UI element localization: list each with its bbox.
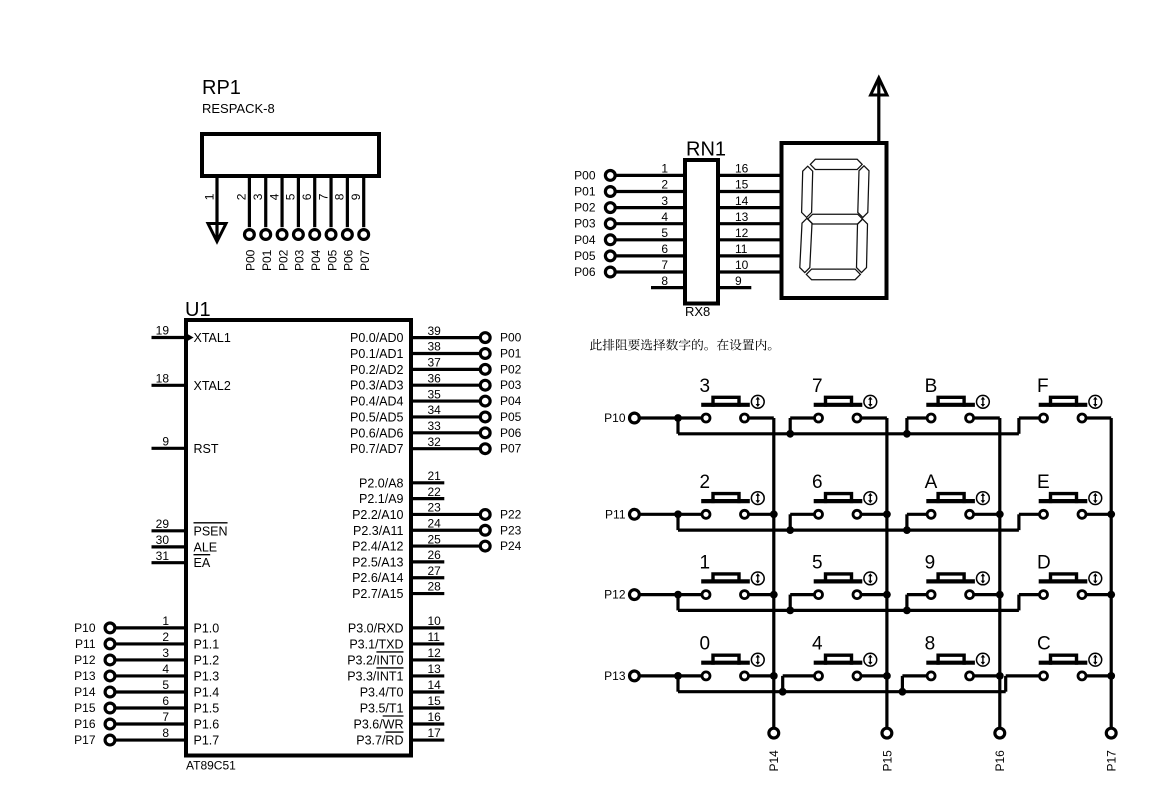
svg-text:2: 2 (235, 193, 249, 200)
button P11-P14 actuator bar (key 2) (701, 499, 750, 503)
7-segment display segment e (800, 218, 812, 272)
U1 pin 23 wire (P2.2/A10) (411, 513, 480, 516)
terminal P00 (480, 333, 490, 343)
button P11-P16 right contact (key A) (966, 510, 974, 518)
junction on P12 row (674, 591, 682, 599)
junction on P11 row (674, 510, 682, 518)
ground symbol at RP1 pin 1 (208, 224, 226, 242)
svg-text:23: 23 (428, 501, 442, 515)
button P12-P14 actuate icon (key 1) (751, 572, 764, 585)
svg-text:P06: P06 (500, 426, 522, 440)
svg-text:P2.7/A15: P2.7/A15 (352, 587, 403, 601)
svg-text:5: 5 (812, 552, 823, 573)
button P13-P16 left contact (key 8) (927, 672, 935, 680)
svg-text:13: 13 (735, 210, 749, 224)
U1 pin 3 wire (P1.2) (115, 658, 186, 661)
wire row bus under-run (678, 528, 1019, 531)
svg-text:3: 3 (162, 646, 169, 660)
svg-text:P01: P01 (574, 185, 596, 199)
svg-text:9: 9 (349, 193, 363, 200)
junction on P10 row (674, 414, 682, 422)
svg-text:2: 2 (162, 630, 169, 644)
button P13-P16 right contact (key 8) (966, 672, 974, 680)
svg-text:P0.6/AD6: P0.6/AD6 (350, 426, 404, 440)
svg-text:34: 34 (428, 403, 442, 417)
svg-text:RST: RST (194, 442, 219, 456)
wire key 0 to column P14 (749, 674, 774, 677)
svg-text:P01: P01 (500, 346, 522, 360)
terminal P24 (480, 541, 490, 551)
svg-text:P1.1: P1.1 (194, 637, 220, 651)
svg-text:21: 21 (428, 469, 442, 483)
button P11-P17 plunger (key E) (1051, 494, 1077, 504)
svg-text:16: 16 (735, 162, 749, 176)
svg-text:1: 1 (661, 162, 668, 176)
wire riser to key E (1019, 513, 1040, 516)
wire RN1 pin 11 to display (718, 254, 782, 257)
svg-text:26: 26 (428, 548, 442, 562)
wire riser to key B (907, 416, 927, 419)
U1 pin 22 wire (P2.1/A9) (411, 497, 444, 500)
svg-text:5: 5 (284, 193, 298, 200)
svg-text:5: 5 (661, 226, 668, 240)
wire column bus P17 (1110, 418, 1113, 728)
button P11-P16 plunger (key A) (938, 494, 964, 504)
wire riser to key 4 (783, 674, 815, 677)
svg-text:B: B (925, 376, 938, 397)
button P13-P16 actuate icon (key 8) (977, 653, 990, 666)
button P10-P14 plunger (key 3) (713, 397, 739, 407)
button P13-P15 actuate icon (key 4) (864, 653, 877, 666)
U1 pin 29 wire (PSEN) (152, 529, 187, 532)
U1 pin 15 wire (P3.5/T1) (411, 706, 444, 709)
U1 pin 16 wire (P3.6/WR) (411, 722, 444, 725)
svg-text:XTAL2: XTAL2 (194, 379, 231, 393)
svg-text:33: 33 (428, 419, 442, 433)
svg-text:7: 7 (162, 710, 169, 724)
U1 pin 30 wire (ALE) (152, 545, 187, 548)
button P13-P17 actuator bar (key C) (1039, 661, 1088, 665)
button P13-P17 right contact (key C) (1078, 672, 1086, 680)
wire RN1 pin 10 to display (718, 270, 782, 273)
svg-text:P06: P06 (342, 249, 356, 271)
button P12-P15 left contact (key 5) (815, 591, 823, 599)
svg-text:P11: P11 (605, 507, 626, 521)
U1 pin 10 wire (P3.0/RXD) (411, 626, 444, 629)
svg-text:P05: P05 (500, 410, 522, 424)
wire riser to key 6 (790, 513, 814, 516)
svg-text:P0.7/AD7: P0.7/AD7 (350, 442, 404, 456)
wire key 4 to column P15 (861, 674, 887, 677)
terminal P17 (1106, 728, 1116, 738)
svg-text:9: 9 (162, 435, 169, 449)
wire key E to column P17 (1086, 513, 1111, 516)
wire key D to column P17 (1086, 593, 1111, 596)
button P10-P16 right contact (key B) (966, 414, 974, 422)
terminal P01 at RN1 (605, 187, 615, 197)
svg-text:13: 13 (428, 662, 442, 676)
wire riser to key D (1019, 593, 1040, 596)
svg-text:16: 16 (428, 710, 442, 724)
button P12-P15 plunger (key 5) (826, 574, 852, 584)
U1 pin 35 wire (P0.4/AD4) (411, 399, 480, 402)
wire key 3 to column P14 (749, 416, 774, 419)
svg-text:39: 39 (428, 324, 442, 338)
svg-text:P17: P17 (1105, 750, 1119, 772)
RN1 pin 9 stub wire (718, 286, 751, 289)
overline on RD (385, 731, 403, 733)
svg-text:P1.4: P1.4 (194, 685, 220, 699)
svg-text:P14: P14 (74, 685, 96, 699)
wire row bus under-run (678, 432, 1019, 435)
svg-text:P05: P05 (325, 249, 339, 271)
svg-text:18: 18 (156, 372, 170, 386)
U1 pin 32 wire (P0.7/AD7) (411, 447, 480, 450)
svg-text:14: 14 (735, 194, 749, 208)
svg-text:P3.1/TXD: P3.1/TXD (349, 637, 403, 651)
button P12-P17 right contact (key D) (1078, 591, 1086, 599)
7-segment display segment d (806, 269, 860, 280)
svg-text:1: 1 (700, 552, 711, 573)
power arrow symbol (871, 78, 887, 95)
U1 pin 34 wire (P0.5/AD5) (411, 415, 480, 418)
terminal P11 (630, 509, 640, 519)
button P12-P16 actuate icon (key 9) (977, 572, 990, 585)
U1 pin 19 wire (XTAL1) (152, 336, 187, 339)
RP1 pin 2 wire (248, 176, 251, 227)
svg-text:P3.0/RXD: P3.0/RXD (348, 621, 404, 635)
button P11-P17 actuator bar (key E) (1039, 499, 1088, 503)
U1 pin 11 wire (P3.1/TXD) (411, 642, 444, 645)
svg-text:E: E (1037, 472, 1050, 493)
svg-text:P3.5/T1: P3.5/T1 (360, 702, 404, 716)
svg-text:XTAL1: XTAL1 (194, 331, 231, 345)
overline on INT1 (376, 667, 403, 669)
svg-text:P02: P02 (276, 249, 290, 271)
wire row bus under-run (678, 690, 1006, 693)
svg-text:15: 15 (428, 694, 442, 708)
terminal P10 (105, 623, 115, 633)
svg-text:P15: P15 (74, 701, 96, 715)
svg-text:P2.4/A12: P2.4/A12 (352, 540, 403, 554)
button P10-P15 actuate icon (key 7) (864, 395, 877, 408)
U1 pin 2 wire (P1.1) (115, 642, 186, 645)
svg-text:AT89C51: AT89C51 (186, 759, 236, 773)
svg-text:36: 36 (428, 371, 442, 385)
U1 pin 25 wire (P2.4/A12) (411, 544, 480, 547)
button P10-P15 plunger (key 7) (826, 397, 852, 407)
terminal P06 at RN1 (605, 267, 615, 277)
button P11-P15 left contact (key 6) (815, 510, 823, 518)
svg-text:11: 11 (735, 242, 748, 256)
svg-text:11: 11 (428, 630, 441, 644)
annotation text (Chinese) (590, 339, 771, 351)
wire riser to key 7 (790, 416, 814, 419)
RP1 pin 6 wire (313, 176, 316, 227)
button P11-P15 plunger (key 6) (826, 494, 852, 504)
terminal P13 (630, 671, 640, 681)
U1 pin 7 wire (P1.6) (115, 722, 186, 725)
button P11-P16 actuator bar (key A) (926, 499, 975, 503)
svg-text:2: 2 (661, 178, 668, 192)
svg-text:35: 35 (428, 387, 442, 401)
wire key 7 to column P15 (861, 416, 887, 419)
svg-text:8: 8 (162, 726, 169, 740)
wire row bus drop (676, 595, 679, 611)
terminal P16 (105, 719, 115, 729)
svg-text:P11: P11 (75, 637, 96, 651)
svg-text:5: 5 (162, 678, 169, 692)
terminal P00 on RP1 pin 2 (245, 230, 255, 240)
button P12-P15 actuator bar (key 5) (814, 579, 863, 583)
button P12-P16 right contact (key 9) (966, 591, 974, 599)
RP1 pin 3 wire (264, 176, 267, 227)
button P10-P14 right contact (key 3) (741, 414, 749, 422)
svg-text:P1.2: P1.2 (194, 653, 220, 667)
button P12-P16 actuator bar (key 9) (926, 579, 975, 583)
U1 pin 28 wire (P2.7/A15) (411, 592, 444, 595)
svg-text:P13: P13 (74, 669, 96, 683)
svg-text:P2.3/A11: P2.3/A11 (353, 524, 404, 538)
terminal P02 (480, 364, 490, 374)
button P10-P15 actuator bar (key 7) (814, 403, 863, 407)
svg-text:P3.7/RD: P3.7/RD (356, 734, 403, 748)
overline on PSEN (194, 522, 228, 524)
terminal P13 (105, 671, 115, 681)
button P10-P14 actuator bar (key 3) (701, 403, 750, 407)
button P12-P14 plunger (key 1) (713, 574, 739, 584)
XTAL1 clock input marker (188, 334, 194, 341)
svg-text:P00: P00 (244, 249, 258, 271)
U1 pin 6 wire (P1.5) (115, 706, 186, 709)
svg-text:P15: P15 (880, 750, 894, 772)
overline on EA (194, 554, 211, 556)
svg-text:P3.3/INT1: P3.3/INT1 (347, 669, 403, 683)
svg-text:F: F (1037, 376, 1049, 397)
svg-text:P2.5/A13: P2.5/A13 (352, 555, 403, 569)
svg-text:P1.6: P1.6 (194, 718, 220, 732)
button P13-P17 left contact (key C) (1040, 672, 1048, 680)
junction column P17 row P13 (1107, 672, 1115, 680)
svg-text:7: 7 (661, 258, 668, 272)
svg-text:P03: P03 (500, 378, 522, 392)
wire row bus riser (1017, 418, 1020, 434)
wire row bus riser (1017, 595, 1020, 611)
button P12-P17 actuator bar (key D) (1039, 579, 1088, 583)
svg-text:PSEN: PSEN (194, 524, 228, 538)
U1 pin 12 wire (P3.2/INT0) (411, 658, 444, 661)
7-segment display segment a (810, 159, 862, 169)
button P10-P17 actuate icon (key F) (1089, 395, 1102, 408)
svg-text:P04: P04 (574, 233, 596, 247)
wire key A to column P16 (974, 513, 1000, 516)
wire RN1 pin 16 to display (718, 174, 782, 177)
button P12-P15 actuate icon (key 5) (864, 572, 877, 585)
terminal P01 on RP1 pin 3 (261, 230, 271, 240)
U1 pin 37 wire (P0.2/AD2) (411, 368, 480, 371)
svg-text:1: 1 (202, 193, 216, 200)
svg-text:0: 0 (700, 634, 711, 655)
terminal P04 (480, 396, 490, 406)
button P13-P15 actuator bar (key 4) (814, 661, 863, 665)
wire RN1 pin 13 to display (718, 222, 782, 225)
button P11-P17 right contact (key E) (1078, 510, 1086, 518)
button P11-P14 right contact (key 2) (741, 510, 749, 518)
button P12-P14 left contact (key 1) (702, 591, 710, 599)
terminal P14 (105, 687, 115, 697)
U1 pin 26 wire (P2.5/A13) (411, 560, 444, 563)
svg-text:6: 6 (661, 242, 668, 256)
junction row bus riser (903, 607, 911, 615)
RP1 pin 8 wire (346, 176, 349, 227)
wire P02 to RN1 pin 3 (615, 206, 685, 209)
wire row bus riser (1017, 514, 1020, 530)
wire P00 to RN1 pin 1 (615, 174, 685, 177)
terminal P22 (480, 510, 490, 520)
wire row bus riser (905, 595, 908, 611)
wire RN1 pin 15 to display (718, 190, 782, 193)
svg-text:31: 31 (156, 549, 170, 563)
svg-text:P17: P17 (74, 733, 96, 747)
button P13-P14 actuate icon (key 0) (751, 653, 764, 666)
svg-text:2: 2 (700, 472, 711, 493)
button P10-P17 left contact (key F) (1040, 414, 1048, 422)
U1 pin 1 wire (P1.0) (115, 626, 186, 629)
terminal P04 at RN1 (605, 235, 615, 245)
button P12-P14 right contact (key 1) (741, 591, 749, 599)
svg-text:P0.3/AD3: P0.3/AD3 (350, 379, 404, 393)
terminal P03 (480, 380, 490, 390)
terminal P05 at RN1 (605, 251, 615, 261)
terminal P03 on RP1 pin 5 (293, 230, 303, 240)
svg-text:P06: P06 (574, 265, 596, 279)
button P10-P16 actuator bar (key B) (926, 403, 975, 407)
button P12-P15 right contact (key 5) (853, 591, 861, 599)
button P10-P14 actuate icon (key 3) (751, 395, 764, 408)
junction column P15 row P12 (883, 591, 891, 599)
svg-text:P0.0/AD0: P0.0/AD0 (350, 331, 404, 345)
svg-text:12: 12 (428, 646, 442, 660)
svg-text:6: 6 (300, 193, 314, 200)
svg-text:RP1: RP1 (202, 77, 241, 99)
wire row bus riser (901, 676, 904, 692)
svg-text:P02: P02 (500, 362, 522, 376)
button P10-P16 plunger (key B) (938, 397, 964, 407)
button P11-P17 actuate icon (key E) (1089, 492, 1102, 505)
wire P06 to RN1 pin 7 (615, 270, 685, 273)
wire riser to key 5 (790, 593, 814, 596)
svg-text:29: 29 (156, 517, 170, 531)
svg-text:10: 10 (428, 614, 442, 628)
svg-text:10: 10 (735, 258, 749, 272)
resistor pack RP1 body (202, 134, 379, 176)
wire row bus riser (1004, 676, 1007, 692)
button P13-P14 plunger (key 0) (713, 655, 739, 665)
svg-text:9: 9 (735, 274, 742, 288)
button P11-P16 left contact (key A) (927, 510, 935, 518)
svg-text:P10: P10 (74, 621, 96, 635)
svg-text:8: 8 (333, 193, 347, 200)
U1 pin 33 wire (P0.6/AD6) (411, 431, 480, 434)
junction row bus riser (786, 430, 794, 438)
wire RN1 pin 14 to display (718, 206, 782, 209)
wire column bus P14 (772, 418, 775, 728)
svg-text:P3.6/WR: P3.6/WR (353, 718, 403, 732)
terminal P02 on RP1 pin 4 (277, 230, 287, 240)
U1 pin 8 wire (P1.7) (115, 738, 186, 741)
svg-text:4: 4 (812, 634, 823, 655)
U1 pin 38 wire (P0.1/AD1) (411, 352, 480, 355)
terminal P15 (882, 728, 892, 738)
svg-text:30: 30 (156, 533, 170, 547)
button P11-P14 left contact (key 2) (702, 510, 710, 518)
svg-text:P22: P22 (500, 507, 522, 521)
wire P01 to RN1 pin 2 (615, 190, 685, 193)
button P13-P16 actuator bar (key 8) (926, 661, 975, 665)
svg-text:P01: P01 (260, 249, 274, 271)
svg-text:37: 37 (428, 356, 442, 370)
U1 pin 18 wire (XTAL2) (152, 384, 187, 387)
svg-text:24: 24 (428, 516, 442, 530)
resistor network RN1 body (685, 160, 718, 304)
wire key 6 to column P15 (861, 513, 887, 516)
svg-text:P0.5/AD5: P0.5/AD5 (350, 410, 404, 424)
junction column P16 row P11 (996, 510, 1004, 518)
svg-text:1: 1 (162, 614, 169, 628)
wire riser to key A (907, 513, 927, 516)
junction column P15 row P11 (883, 510, 891, 518)
svg-text:P07: P07 (358, 249, 372, 271)
terminal P00 at RN1 (605, 171, 615, 181)
svg-text:7: 7 (812, 376, 823, 397)
button P12-P16 left contact (key 9) (927, 591, 935, 599)
svg-text:6: 6 (812, 472, 823, 493)
7-segment display body (782, 143, 887, 298)
wire key 8 to column P16 (974, 674, 1000, 677)
svg-text:27: 27 (428, 564, 442, 578)
wire P11 to key row (639, 513, 702, 516)
terminal P07 on RP1 pin 9 (359, 230, 369, 240)
terminal P10 (630, 413, 640, 423)
svg-text:P02: P02 (574, 201, 596, 215)
wire P05 to RN1 pin 6 (615, 254, 685, 257)
svg-text:P03: P03 (293, 249, 307, 271)
svg-text:P14: P14 (767, 750, 781, 772)
svg-text:RX8: RX8 (685, 304, 710, 319)
button P10-P17 right contact (key F) (1078, 414, 1086, 422)
wire row bus riser (789, 595, 792, 611)
svg-text:32: 32 (428, 435, 442, 449)
svg-text:P2.1/A9: P2.1/A9 (359, 492, 404, 506)
junction column P16 row P13 (996, 672, 1004, 680)
svg-text:6: 6 (162, 694, 169, 708)
svg-text:P13: P13 (604, 669, 626, 683)
button P11-P15 actuate icon (key 6) (864, 492, 877, 505)
button P11-P16 actuate icon (key A) (977, 492, 990, 505)
button P10-P14 left contact (key 3) (702, 414, 710, 422)
terminal P05 (480, 412, 490, 422)
wire key 1 to column P14 (749, 593, 774, 596)
svg-text:14: 14 (428, 678, 442, 692)
button P10-P16 actuate icon (key B) (977, 395, 990, 408)
wire column bus P16 (998, 418, 1001, 728)
svg-text:P2.2/A10: P2.2/A10 (352, 508, 403, 522)
terminal P23 (480, 525, 490, 535)
svg-text:P23: P23 (500, 523, 522, 537)
svg-text:P0.2/AD2: P0.2/AD2 (350, 363, 404, 377)
junction row bus riser (786, 607, 794, 615)
microcontroller U1 body (186, 320, 411, 756)
